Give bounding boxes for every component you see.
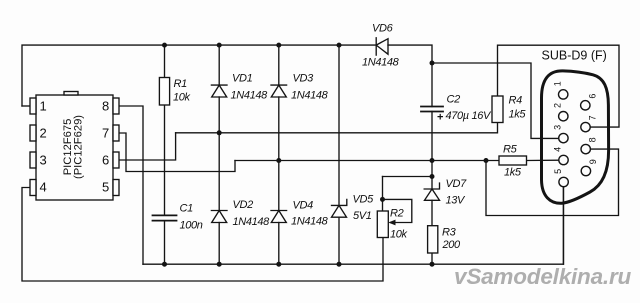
wire left lower vertical pin4 to bottom	[22, 188, 383, 282]
svg-text:vSamodelkina.ru: vSamodelkina.ru	[454, 264, 632, 289]
wire C2 to net B	[431, 112, 433, 161]
wire VD3 column top	[278, 45, 280, 85]
wire R1 to C1	[164, 105, 166, 215]
svg-text:100n: 100n	[180, 220, 203, 232]
diode VD1	[211, 85, 227, 97]
svg-text:7: 7	[588, 115, 598, 120]
node net B / C2-VD7	[430, 158, 435, 163]
svg-text:VD6: VD6	[372, 23, 394, 35]
svg-text:3: 3	[553, 125, 563, 130]
svg-text:9: 9	[588, 159, 598, 164]
wire R5 right to connector pin4	[527, 159, 559, 161]
node ground rail / R3	[430, 262, 435, 267]
svg-text:+: +	[437, 112, 443, 124]
IC U1 PIC12F675 body	[36, 95, 113, 200]
wire R2 top branch	[383, 176, 433, 178]
svg-text:5: 5	[102, 180, 109, 195]
wire net B to VD7	[431, 161, 433, 190]
wire R4 top to connector pin7	[498, 45, 620, 127]
resistor R2 (trimmer)	[377, 211, 388, 238]
zener diode VD7	[424, 183, 439, 200]
resistor R1	[159, 78, 169, 106]
resistor R3	[428, 226, 438, 253]
wire R1 column top	[164, 45, 166, 77]
connector pin 1	[559, 90, 568, 99]
svg-text:C2: C2	[447, 94, 461, 106]
svg-text:R2: R2	[390, 208, 404, 220]
wire pin6 to riser	[119, 133, 176, 160]
svg-text:4: 4	[40, 180, 47, 195]
node ground rail / C1	[162, 262, 167, 267]
resistor R4	[492, 96, 503, 123]
svg-text:1N4148: 1N4148	[231, 90, 269, 102]
node net B / VD3-VD4	[276, 158, 281, 163]
wire pin7 jog	[119, 133, 235, 172]
svg-text:SUB-D9 (F): SUB-D9 (F)	[542, 49, 607, 63]
connector pin 8	[581, 144, 590, 153]
node R2 top branch	[430, 174, 435, 179]
node ground rail / VD5	[337, 262, 342, 267]
IC pin 2 stub	[30, 125, 36, 141]
svg-text:VD4: VD4	[293, 200, 314, 212]
diode VD2	[211, 211, 227, 223]
node ground rail / VD4	[276, 262, 281, 267]
svg-text:10k: 10k	[173, 92, 191, 104]
connector pin 4	[559, 155, 568, 164]
wire pin1 to stub	[22, 105, 30, 107]
svg-text:6: 6	[102, 153, 109, 168]
node ground rail / VD2	[217, 262, 222, 267]
svg-text:1N4148: 1N4148	[233, 216, 271, 228]
IC pin 7 stub	[113, 125, 119, 141]
svg-text:8: 8	[588, 137, 598, 142]
wire VD2 to ground rail	[218, 223, 220, 265]
svg-text:R5: R5	[503, 144, 518, 156]
node top rail / VD3	[276, 43, 281, 48]
wire VD5 to ground rail	[338, 217, 340, 264]
wire VD7 to R3	[431, 200, 433, 225]
IC pin 5 stub	[113, 180, 119, 196]
svg-text:VD5: VD5	[353, 194, 375, 206]
IC pin 3 stub	[30, 152, 36, 168]
svg-text:7: 7	[102, 126, 109, 141]
svg-text:(PIC12F629): (PIC12F629)	[73, 115, 85, 179]
svg-text:6: 6	[587, 94, 597, 99]
IC pin 1 stub	[30, 98, 36, 114]
svg-text:1: 1	[40, 99, 47, 114]
svg-text:R4: R4	[509, 95, 523, 107]
connector pin 3	[559, 133, 568, 142]
svg-text:13V: 13V	[446, 195, 467, 207]
wire top rail right of VD6 to corner down	[388, 45, 432, 63]
resistor R2 wiper arrow	[388, 220, 395, 226]
svg-text:R1: R1	[174, 78, 188, 90]
svg-text:C1: C1	[180, 203, 194, 215]
wire net A row	[176, 123, 498, 133]
IC pin 6 stub	[113, 152, 119, 168]
svg-text:VD1: VD1	[232, 73, 253, 85]
diode VD4	[271, 211, 287, 223]
IC notch	[64, 92, 78, 96]
connector pin 7	[581, 122, 590, 131]
node net B / R5 branch	[484, 158, 489, 163]
svg-text:VD3: VD3	[293, 73, 315, 85]
svg-text:3: 3	[40, 153, 47, 168]
wire VD1 to net A	[218, 97, 220, 133]
wire R3 to ground rail	[431, 253, 433, 264]
node net A / VD1-VD2	[217, 130, 222, 135]
svg-text:VD7: VD7	[446, 178, 468, 190]
svg-text:1: 1	[552, 81, 562, 86]
wire net B to VD4	[278, 161, 280, 211]
wire pin8 down to ground rail	[119, 106, 143, 264]
svg-text:4: 4	[553, 147, 563, 152]
node R2 wiper	[380, 197, 385, 202]
zener diode VD5	[332, 199, 347, 217]
svg-text:5V1: 5V1	[353, 210, 372, 222]
svg-text:1k5: 1k5	[504, 167, 522, 179]
capacitor C1	[153, 215, 177, 220]
svg-text:2: 2	[40, 126, 47, 141]
svg-text:R3: R3	[442, 227, 457, 239]
wire VD3 to net B	[278, 97, 280, 161]
svg-text:10k: 10k	[390, 229, 408, 241]
svg-text:2: 2	[553, 103, 563, 108]
wire top rail	[22, 45, 376, 106]
svg-text:1N4148: 1N4148	[362, 57, 400, 69]
svg-text:1N4148: 1N4148	[291, 90, 329, 102]
wire VD6 node to pin3 of connector	[432, 63, 559, 138]
wire VD4 to ground rail	[278, 223, 280, 265]
connector SUB-D9 outline	[542, 71, 609, 203]
connector pin 2	[559, 112, 568, 121]
svg-text:470µ 16V: 470µ 16V	[446, 110, 493, 122]
connector pin 6	[581, 101, 590, 110]
wire R2 riser	[382, 177, 384, 212]
wire C1 to ground rail	[164, 221, 166, 264]
wire VD5 column	[338, 45, 340, 205]
wire net B row	[235, 160, 499, 162]
wire connector pin5 to ground rail	[562, 187, 564, 264]
svg-text:8: 8	[102, 99, 109, 114]
svg-text:1k5: 1k5	[509, 109, 527, 121]
node VD6 output / C2	[430, 61, 435, 66]
wire ground rail	[143, 187, 564, 264]
svg-text:1N4148: 1N4148	[291, 216, 329, 228]
connector pin 5	[559, 177, 568, 186]
diode VD3	[271, 85, 287, 97]
svg-text:200: 200	[442, 239, 462, 251]
node top rail / VD1	[217, 43, 222, 48]
wire C2 column top	[431, 63, 433, 107]
diode VD6	[376, 38, 388, 55]
wire VD1 column top	[218, 45, 220, 85]
svg-text:5: 5	[553, 169, 563, 174]
connector pin 9	[581, 166, 590, 175]
resistor R5	[499, 156, 527, 165]
wire R5 junction to connector pin8	[486, 149, 619, 215]
IC pin 4 stub	[30, 180, 36, 196]
capacitor C2	[421, 107, 443, 112]
wire net A to VD2	[218, 133, 220, 211]
node top rail / VD5	[337, 43, 342, 48]
IC pin 8 stub	[113, 98, 119, 114]
svg-text:VD2: VD2	[233, 199, 254, 211]
node top rail / R1	[162, 43, 167, 48]
wire R2 wiper loop	[383, 199, 412, 222]
